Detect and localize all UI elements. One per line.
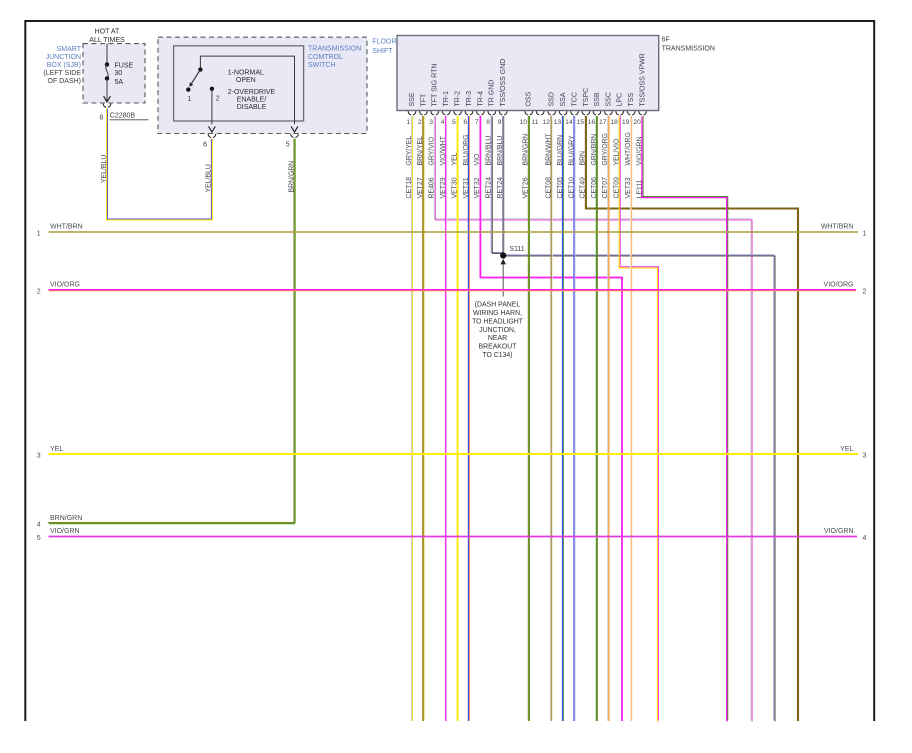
svg-text:2-OVERDRIVE: 2-OVERDRIVE [228, 89, 276, 96]
svg-text:3: 3 [863, 453, 867, 460]
svg-text:1-NORMAL: 1-NORMAL [228, 69, 264, 76]
svg-text:WHT/BRN: WHT/BRN [50, 224, 83, 231]
svg-text:11: 11 [531, 119, 538, 126]
pin 20 TSS/OSS VPWR [633, 53, 646, 126]
switch pin 5 connector [286, 134, 299, 149]
label YEL circuit VET30 [451, 152, 458, 198]
label VIO/WHT circuit VET29 [440, 135, 447, 198]
svg-text:TSS/OSS VPWR: TSS/OSS VPWR [640, 53, 647, 106]
label BRN/WHT circuit CET08 [546, 133, 553, 199]
svg-text:DISABLE: DISABLE [237, 104, 267, 111]
switch pin 6 exit arrow [209, 126, 216, 132]
label BLU/GRY circuit CET10 [568, 135, 575, 199]
connector C2280B [99, 104, 148, 122]
pin 5 TR-2 [452, 91, 461, 126]
svg-text:VIO/GRN: VIO/GRN [50, 528, 80, 535]
switch blade with pivot [190, 67, 203, 87]
wire VIO/ORG line 2 [37, 282, 867, 296]
wire BRN/YEL pin 2 [422, 116, 424, 721]
wire VIO/GRN pin 20 [642, 117, 727, 722]
svg-text:YEL/BLU: YEL/BLU [101, 155, 108, 183]
svg-text:BRN/GRN: BRN/GRN [50, 515, 82, 522]
svg-text:ENABLE/: ENABLE/ [237, 97, 267, 104]
svg-text:SHIFT: SHIFT [372, 48, 393, 55]
svg-text:6: 6 [203, 141, 207, 148]
svg-text:BRN/GRN: BRN/GRN [288, 161, 295, 193]
pin 19 TSS [622, 93, 635, 126]
svg-text:5: 5 [286, 141, 290, 148]
svg-text:SMART: SMART [57, 46, 82, 53]
label WHT/ORG circuit VET33 [625, 132, 632, 198]
label BRN/GRN circuit VET26 [523, 134, 530, 199]
wire WHT/ORG pin 19 [630, 116, 632, 721]
svg-text:YEL: YEL [50, 446, 63, 453]
label 2-OVERDRIVE ENABLE/DISABLE [228, 89, 276, 111]
svg-text:2: 2 [216, 96, 220, 103]
svg-text:SSD: SSD [549, 92, 556, 106]
svg-text:9: 9 [498, 119, 502, 126]
svg-text:BOX (SJB): BOX (SJB) [47, 62, 81, 69]
svg-text:SSA: SSA [560, 92, 567, 106]
svg-text:VIO/ORG: VIO/ORG [824, 282, 854, 289]
wire GRY/YEL pin 1 [410, 116, 412, 721]
svg-text:VIO/ORG: VIO/ORG [50, 282, 80, 289]
wire VIO/GRN line 5 [37, 528, 867, 542]
svg-text:14: 14 [565, 119, 573, 126]
wire BLU/ORG pin 6 [467, 116, 469, 721]
switch contact 1 [186, 87, 191, 103]
svg-text:TSPC: TSPC [583, 88, 590, 107]
label BRN/YEL circuit VET27 [417, 136, 424, 199]
pin 2 TFT [418, 93, 427, 126]
switch contact 2 [210, 87, 220, 125]
svg-text:TO HEADLIGHT: TO HEADLIGHT [472, 318, 524, 325]
wire WHT/BRN line 1 [37, 224, 867, 238]
wire BLU/GRN pin 13 [562, 116, 564, 721]
svg-text:1: 1 [863, 231, 867, 238]
svg-text:3: 3 [37, 453, 41, 460]
svg-text:TO C134): TO C134) [482, 352, 512, 359]
pin 7 TR-4 [475, 91, 484, 126]
svg-text:OPEN: OPEN [236, 77, 256, 84]
switch inner box [174, 46, 304, 121]
label BLU/ORG circuit VET31 [463, 134, 470, 198]
svg-text:2: 2 [863, 289, 867, 296]
wire GRY/ORG pin 17 [607, 116, 609, 721]
label VIO/GRN circuit LE111 [636, 136, 643, 198]
svg-text:13: 13 [554, 119, 562, 126]
svg-text:FUSE: FUSE [115, 63, 134, 70]
transmission control switch box (dashed, floor shift) [158, 37, 367, 133]
svg-text:TR-4: TR-4 [477, 91, 484, 107]
wire BLU/GRY pin 14 [573, 116, 575, 721]
wire BRN/BLU pin 9 to S111 [502, 116, 504, 256]
svg-text:JUNCTION: JUNCTION [46, 54, 81, 61]
svg-text:19: 19 [622, 119, 630, 126]
label 1-NORMAL OPEN [228, 69, 264, 84]
svg-text:18: 18 [610, 119, 618, 126]
svg-text:(DASH PANEL: (DASH PANEL [475, 302, 521, 309]
svg-text:2: 2 [418, 119, 422, 126]
switch pin 5 exit arrow [291, 126, 298, 132]
pin 10 OSS [519, 91, 532, 125]
pin 12 SSD [542, 92, 555, 126]
wire YEL/VIO pin 18 [619, 117, 657, 722]
pin 18 LPC [610, 93, 623, 126]
label SMART JUNCTION BOX (SJB) (LEFT SIDE OF DASH) [43, 46, 81, 85]
pin 13 SSA [554, 92, 567, 126]
label 6F TRANSMISSION [662, 37, 715, 53]
label BRN circuit CET49 [580, 151, 587, 199]
svg-text:TFT: TFT [420, 93, 427, 107]
svg-text:OSS: OSS [526, 91, 533, 106]
svg-text:VIO/GRN: VIO/GRN [824, 528, 854, 535]
svg-text:4: 4 [441, 119, 445, 126]
transmission connector box C [397, 36, 659, 111]
svg-text:SWITCH: SWITCH [308, 62, 336, 69]
svg-text:WHT/BRN: WHT/BRN [821, 224, 854, 231]
svg-text:6F: 6F [662, 37, 670, 44]
svg-text:8: 8 [99, 115, 103, 122]
svg-text:4: 4 [37, 521, 41, 528]
svg-text:2: 2 [37, 289, 41, 296]
pin 15 TSPC [577, 88, 590, 126]
svg-text:5: 5 [452, 119, 456, 126]
svg-text:(LEFT SIDE: (LEFT SIDE [43, 70, 81, 77]
svg-text:NEAR: NEAR [488, 335, 507, 342]
label GRY/YEL circuit CET18 [406, 136, 413, 199]
svg-text:HOT AT: HOT AT [95, 29, 120, 36]
svg-text:6: 6 [463, 119, 467, 126]
label HOT AT ALL TIMES [89, 29, 125, 45]
pin 16 SSB [588, 92, 601, 126]
svg-text:JUNCTION,: JUNCTION, [479, 327, 516, 334]
svg-text:TR-1: TR-1 [443, 91, 450, 107]
pin 14 TCC [565, 92, 578, 126]
svg-text:10: 10 [519, 119, 527, 126]
label BRN/BLU circuit RET24 [486, 136, 493, 199]
svg-text:16: 16 [588, 119, 596, 126]
svg-text:TSS/OSS GND: TSS/OSS GND [500, 59, 507, 107]
svg-text:SSE: SSE [409, 92, 416, 106]
wire BRN/BLU S111 to right [503, 255, 774, 721]
wire GRY/VIO pin 3 [434, 115, 751, 720]
wire GRN/BRN pin 16 [595, 116, 597, 721]
label YEL/VIO circuit CET09 [614, 138, 621, 198]
svg-text:1: 1 [406, 119, 410, 126]
pin 3 TFT SIG RTN [429, 64, 438, 126]
arrow into connector C2280B [104, 96, 111, 102]
label VIO circuit VET32 [474, 153, 481, 199]
svg-text:YEL/BLU: YEL/BLU [206, 164, 213, 192]
label GRN/BRN circuit CET06 [591, 134, 598, 199]
svg-text:5A: 5A [115, 79, 124, 86]
wire BRN/GRN switch pin 5 down to line 4 [294, 139, 295, 523]
junction S111 [500, 246, 525, 259]
svg-text:OF DASH): OF DASH) [48, 78, 81, 85]
svg-text:4: 4 [863, 535, 867, 542]
label BLU/GRN circuit CET05 [557, 135, 564, 199]
note DASH PANEL WIRING HARN [472, 302, 524, 359]
svg-text:20: 20 [633, 119, 641, 126]
svg-text:YEL: YEL [840, 446, 853, 453]
pin 8 TR GND [486, 80, 495, 126]
svg-text:SSC: SSC [605, 92, 612, 106]
fuse F1 FUSE 30 5A [105, 44, 134, 101]
svg-text:TRANSMISSION: TRANSMISSION [308, 46, 361, 53]
svg-text:SSB: SSB [594, 92, 601, 106]
smart junction box SJB (dashed) [83, 44, 145, 103]
svg-text:TCC: TCC [571, 92, 578, 106]
arrow to S111 from note [500, 259, 506, 297]
label FLOOR SHIFT [372, 39, 396, 55]
svg-text:15: 15 [577, 119, 585, 126]
svg-text:5: 5 [37, 535, 41, 542]
wire VIO/WHT pin 4 [445, 116, 447, 721]
pin 17 SSC [599, 92, 612, 126]
label GRY/VIO circuit RE406 [429, 136, 436, 198]
label GRY/ORG circuit CET07 [602, 133, 609, 198]
wire BRN/GRN line 4 [37, 515, 295, 529]
label TRANSMISSION COMTROL SWITCH [308, 46, 361, 70]
wire VIO pin 7 [480, 116, 622, 721]
svg-text:TR-2: TR-2 [455, 91, 462, 107]
label BRN/BLU circuit RET24 [497, 136, 504, 199]
wire BRN/WHT pin 12 [550, 116, 552, 721]
svg-text:TRANSMISSION: TRANSMISSION [662, 46, 715, 53]
pin 1 SSE [406, 92, 415, 126]
svg-text:1: 1 [188, 96, 192, 103]
wire BRN/BLU pin 8 [491, 115, 502, 252]
svg-text:S111: S111 [510, 246, 525, 253]
svg-text:3: 3 [429, 119, 433, 126]
switch pin 6 connector [203, 134, 216, 149]
svg-text:12: 12 [542, 119, 550, 126]
svg-text:WIRING HARN,: WIRING HARN, [473, 310, 522, 317]
pin 9 TSS/OSS GND [498, 59, 507, 126]
wire BRN/GRN pin 10 [527, 116, 529, 721]
svg-text:TR GND: TR GND [489, 80, 496, 107]
pin 11 (unused) [531, 111, 544, 126]
svg-text:1: 1 [37, 231, 41, 238]
svg-text:TSS: TSS [628, 93, 635, 107]
wire YEL/BLU fuse to switch pin 6 (U shape) [107, 109, 212, 220]
pin 6 TR-3 [463, 91, 472, 126]
wire YEL pin 5 [457, 116, 459, 721]
pin 4 TR-1 [441, 91, 450, 126]
svg-text:30: 30 [115, 70, 123, 77]
svg-text:17: 17 [599, 119, 607, 126]
wire BRN pin 15 [586, 116, 798, 721]
svg-text:8: 8 [486, 119, 490, 126]
svg-text:C2280B: C2280B [110, 113, 136, 120]
svg-text:7: 7 [475, 119, 479, 126]
svg-text:FLOOR: FLOOR [372, 39, 396, 46]
svg-text:TR-3: TR-3 [466, 91, 473, 107]
svg-text:TFT SIG RTN: TFT SIG RTN [432, 64, 439, 107]
wire YEL line 3 [37, 446, 867, 460]
svg-text:COMTROL: COMTROL [308, 54, 343, 61]
svg-text:LPC: LPC [617, 93, 624, 107]
switch internal wire [200, 56, 294, 124]
svg-text:BREAKOUT: BREAKOUT [479, 343, 518, 350]
